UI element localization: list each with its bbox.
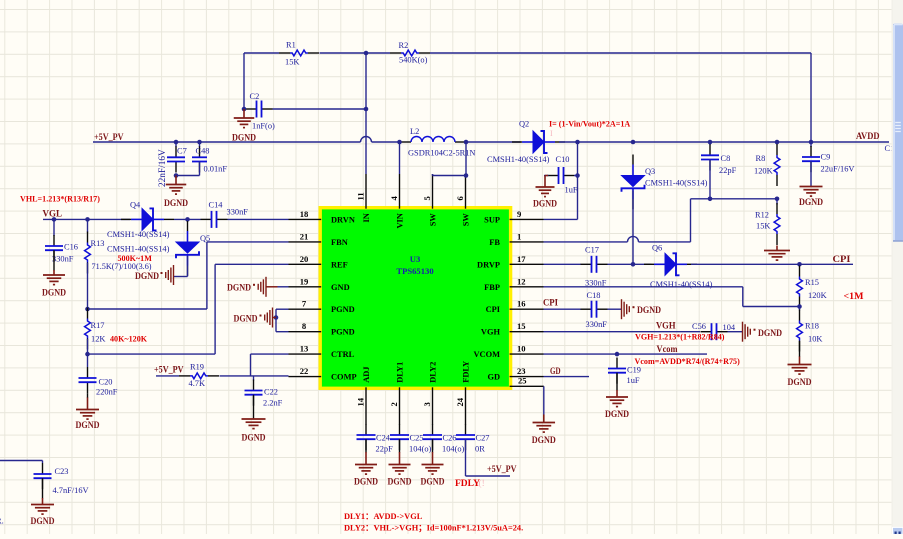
svg-text:22nF/16V: 22nF/16V bbox=[158, 149, 168, 187]
capacitor C24 bbox=[357, 424, 394, 454]
node bbox=[797, 304, 802, 309]
capacitor C17 bbox=[544, 246, 608, 288]
svg-text:FB: FB bbox=[489, 238, 500, 247]
svg-text:Q2: Q2 bbox=[519, 120, 529, 129]
svg-text:19: 19 bbox=[300, 276, 309, 286]
net CPI pin16 bbox=[543, 298, 558, 308]
diode Q3 bbox=[622, 155, 708, 210]
ground bbox=[764, 246, 790, 261]
pin 2 DLY1 bbox=[389, 362, 405, 425]
ground DGND bbox=[799, 186, 823, 207]
svg-text:ADJ: ADJ bbox=[362, 367, 371, 383]
svg-text:104: 104 bbox=[723, 323, 736, 332]
pin 1 FB bbox=[489, 231, 543, 247]
resistor R15 bbox=[797, 266, 827, 308]
svg-text:R17: R17 bbox=[91, 321, 105, 330]
label clipped bbox=[0, 517, 4, 526]
svg-text:120K: 120K bbox=[754, 167, 773, 176]
svg-text:DGND: DGND bbox=[164, 198, 188, 208]
svg-text:C20: C20 bbox=[99, 378, 113, 387]
svg-text:8: 8 bbox=[302, 321, 307, 331]
ground DGND bbox=[76, 393, 100, 430]
pin 14 ADJ bbox=[356, 367, 372, 425]
svg-text:CPI: CPI bbox=[486, 305, 500, 314]
svg-text:VGH: VGH bbox=[656, 321, 676, 331]
svg-text:AVDD: AVDD bbox=[856, 131, 880, 141]
svg-text:Q3: Q3 bbox=[645, 167, 655, 176]
svg-text:L2: L2 bbox=[410, 127, 419, 136]
svg-text:DRVN: DRVN bbox=[331, 215, 355, 224]
op-amp U3 TPS65130 body bbox=[320, 208, 510, 389]
wire bbox=[430, 53, 811, 142]
svg-text:GND: GND bbox=[331, 283, 350, 292]
ground DGND bbox=[532, 415, 556, 446]
svg-text:C25: C25 bbox=[410, 434, 424, 443]
wire bbox=[320, 52, 367, 54]
capacitor C26 bbox=[423, 424, 465, 454]
svg-text:DGND: DGND bbox=[42, 288, 66, 298]
net AVDD bbox=[856, 131, 880, 141]
svg-text:500K~1M: 500K~1M bbox=[118, 254, 153, 263]
net +5V_PV bbox=[94, 132, 124, 142]
pin 22 COMP bbox=[289, 366, 357, 382]
net CPI bbox=[833, 254, 851, 264]
svg-text:CMSH1-40(SS14): CMSH1-40(SS14) bbox=[107, 230, 170, 239]
capacitor C19 bbox=[608, 358, 641, 386]
svg-text:Vcom: Vcom bbox=[657, 344, 678, 354]
ground DGND rotated PGND bbox=[234, 308, 277, 328]
net +5V_PV bottom bbox=[487, 464, 517, 474]
svg-text:R8: R8 bbox=[756, 154, 766, 163]
svg-text:15: 15 bbox=[517, 321, 526, 331]
svg-text:VHL=1.213*(R13/R17): VHL=1.213*(R13/R17) bbox=[20, 195, 100, 204]
svg-text:40K~120K: 40K~120K bbox=[110, 335, 148, 344]
node bbox=[242, 107, 247, 112]
svg-text:DGND: DGND bbox=[788, 377, 812, 387]
svg-text:DGND: DGND bbox=[232, 133, 256, 143]
svg-text:GD: GD bbox=[487, 373, 500, 382]
ground DGND bbox=[533, 176, 557, 209]
wire FBN bbox=[85, 242, 288, 311]
wire FBP bbox=[544, 287, 800, 307]
net C1 clipped bbox=[885, 144, 895, 153]
resistor R8 bbox=[754, 144, 780, 186]
wire REF bbox=[88, 264, 289, 354]
svg-text:+5V_PV: +5V_PV bbox=[94, 132, 124, 142]
svg-text:DGND: DGND bbox=[76, 420, 100, 430]
svg-text:SW: SW bbox=[429, 213, 438, 227]
capacitor C18 bbox=[544, 291, 608, 329]
svg-text:REF: REF bbox=[331, 260, 348, 269]
pin 17 DRVP bbox=[477, 254, 543, 270]
svg-text:71.5K(7)/100(3.6): 71.5K(7)/100(3.6) bbox=[92, 262, 152, 271]
pin 16 CPI bbox=[486, 299, 544, 315]
svg-text:<1M: <1M bbox=[844, 291, 864, 301]
svg-text:DLY1：AVDD->VGL: DLY1：AVDD->VGL bbox=[344, 512, 423, 521]
pin 4 VIN bbox=[389, 174, 405, 229]
svg-text:PGND: PGND bbox=[331, 328, 355, 337]
svg-text:540K(o): 540K(o) bbox=[399, 56, 428, 65]
pin 10 VCOM bbox=[473, 344, 543, 360]
capacitor C14 bbox=[201, 201, 289, 228]
svg-text:C8: C8 bbox=[721, 154, 731, 163]
svg-text:DGND: DGND bbox=[354, 477, 378, 487]
wire bbox=[399, 439, 401, 452]
wire AVDD bbox=[559, 141, 889, 143]
svg-text:DLY2：VHL->VGH；Id=100nF*1.213V/: DLY2：VHL->VGH；Id=100nF*1.213V/5uA=24. bbox=[344, 524, 523, 534]
svg-text:Vcom=AVDD*R74/(R74+R75): Vcom=AVDD*R74/(R74+R75) bbox=[635, 357, 741, 366]
svg-text:DRVP: DRVP bbox=[477, 260, 500, 269]
svg-text:0.01nF: 0.01nF bbox=[204, 165, 228, 174]
pin 6 SW bbox=[455, 174, 471, 226]
svg-text:DLY2: DLY2 bbox=[429, 362, 438, 383]
svg-text:CMSH1-40(SS14): CMSH1-40(SS14) bbox=[107, 245, 170, 254]
svg-text:C22: C22 bbox=[264, 388, 278, 397]
pin 5 SW bbox=[422, 174, 438, 226]
wire bbox=[365, 439, 367, 452]
wire pin25 bbox=[543, 386, 545, 414]
svg-text:C24: C24 bbox=[376, 434, 391, 443]
svg-text:C14: C14 bbox=[209, 201, 224, 210]
svg-text:DGND: DGND bbox=[799, 197, 823, 207]
svg-text:10K: 10K bbox=[808, 335, 822, 344]
svg-text:104(o): 104(o) bbox=[442, 445, 465, 454]
wire bbox=[42, 478, 44, 498]
svg-text:R15: R15 bbox=[805, 278, 819, 287]
svg-text:4: 4 bbox=[389, 196, 399, 201]
wire IN bbox=[365, 53, 367, 174]
svg-text:I= (1-Vin/Vout)*2A=1A: I= (1-Vin/Vout)*2A=1A bbox=[549, 120, 630, 129]
svg-text:CPI: CPI bbox=[543, 298, 558, 308]
ground DGND bbox=[242, 418, 266, 443]
svg-text:VGH=1.213*(1+R82/R84): VGH=1.213*(1+R82/R84) bbox=[635, 333, 725, 342]
ground DGND bbox=[42, 270, 66, 298]
svg-text:4.7nF/16V: 4.7nF/16V bbox=[53, 486, 89, 495]
svg-text:DGND: DGND bbox=[758, 328, 782, 338]
svg-text:0R: 0R bbox=[475, 445, 485, 454]
svg-text:+5V_PV: +5V_PV bbox=[154, 365, 184, 375]
label Q5 part bbox=[107, 245, 170, 254]
svg-text:I: I bbox=[550, 129, 553, 138]
pin 11 IN bbox=[356, 174, 372, 223]
net GD bbox=[550, 366, 561, 376]
svg-text:22: 22 bbox=[300, 366, 309, 376]
svg-text:DGND: DGND bbox=[605, 409, 629, 419]
capacitor C2 bbox=[246, 92, 276, 131]
svg-text:SUP: SUP bbox=[484, 215, 500, 224]
svg-text:DGND: DGND bbox=[388, 477, 412, 487]
wire bbox=[253, 395, 255, 418]
svg-text:CTRL: CTRL bbox=[331, 350, 355, 359]
pin 19 GND bbox=[289, 276, 350, 292]
svg-text:C7: C7 bbox=[177, 147, 187, 156]
wire FB bbox=[544, 236, 691, 241]
svg-text:DGND: DGND bbox=[421, 477, 445, 487]
svg-text:+5V_PV: +5V_PV bbox=[487, 464, 517, 474]
wire CPI bbox=[691, 262, 853, 267]
wire bbox=[728, 331, 743, 333]
svg-text:Q6: Q6 bbox=[652, 244, 662, 253]
svg-text:C26: C26 bbox=[443, 434, 457, 443]
wire FB node bbox=[691, 197, 780, 242]
annotation Vcom bbox=[635, 357, 741, 366]
svg-text:DGND: DGND bbox=[234, 314, 258, 324]
wire bbox=[810, 161, 812, 186]
svg-text:VGL: VGL bbox=[43, 209, 63, 219]
svg-text:2.2nF: 2.2nF bbox=[263, 399, 283, 408]
capacitor C27 bbox=[456, 424, 489, 454]
svg-text:C27: C27 bbox=[476, 434, 490, 443]
svg-text:15K: 15K bbox=[756, 222, 770, 231]
pin 21 FBN bbox=[289, 231, 348, 247]
resistor R2 bbox=[366, 41, 430, 65]
svg-text:CMSH1-40(SS14): CMSH1-40(SS14) bbox=[487, 155, 550, 164]
pin 25 bbox=[510, 376, 544, 387]
ground DGND bbox=[232, 109, 256, 143]
node junctions bbox=[174, 140, 814, 145]
svg-text:21: 21 bbox=[300, 231, 309, 241]
pin 12 FBP bbox=[484, 276, 543, 292]
wire bbox=[87, 339, 89, 354]
capacitor C22 bbox=[245, 376, 283, 408]
node R1-R2 bbox=[364, 51, 369, 56]
ground DGND bbox=[31, 498, 55, 526]
wire FDLY to +5V_PV bbox=[466, 439, 511, 476]
svg-text:16: 16 bbox=[517, 299, 526, 309]
ground DGND bbox=[605, 390, 629, 419]
net FDLY struck bbox=[455, 478, 485, 489]
svg-text:11: 11 bbox=[356, 192, 366, 200]
wire SUP bbox=[544, 142, 580, 219]
capacitor C48 bbox=[176, 142, 227, 176]
annotation DLY2 bbox=[344, 524, 523, 534]
svg-text:C16: C16 bbox=[64, 243, 78, 252]
capacitor C8 bbox=[701, 142, 737, 175]
net Vcom bbox=[657, 344, 678, 354]
annotation current bbox=[549, 120, 630, 139]
diode Q6 bbox=[644, 244, 713, 290]
ground DGND bbox=[354, 452, 378, 487]
capacitor C7 bbox=[158, 142, 187, 187]
svg-text:3: 3 bbox=[422, 402, 432, 406]
pin 3 DLY2 bbox=[422, 362, 438, 425]
svg-text:14: 14 bbox=[356, 397, 366, 406]
wire bbox=[709, 160, 711, 199]
svg-text:VIN: VIN bbox=[396, 213, 405, 228]
svg-text:SW: SW bbox=[462, 213, 471, 227]
wire bbox=[608, 308, 622, 310]
capacitor C23 bbox=[34, 463, 89, 495]
svg-text:1uF: 1uF bbox=[627, 376, 640, 385]
svg-text:120K: 120K bbox=[808, 291, 827, 300]
wire bbox=[174, 218, 201, 220]
svg-text:C2: C2 bbox=[250, 92, 260, 101]
annotation R17 range bbox=[110, 335, 148, 344]
svg-text:C48: C48 bbox=[196, 147, 210, 156]
svg-text:R1: R1 bbox=[286, 41, 296, 50]
svg-text:DGND: DGND bbox=[533, 199, 557, 209]
wire CTRL bbox=[251, 354, 289, 376]
svg-text:22pF: 22pF bbox=[376, 445, 394, 454]
resistor R13 bbox=[85, 219, 152, 273]
svg-text:FDLY: FDLY bbox=[462, 361, 471, 383]
wire bbox=[244, 53, 279, 109]
annotation bbox=[844, 291, 864, 301]
svg-text:R13: R13 bbox=[91, 239, 105, 248]
diode Q2 bbox=[487, 120, 565, 165]
svg-text:17: 17 bbox=[517, 254, 526, 264]
ground DGND rotated C56 bbox=[743, 322, 783, 342]
svg-text:R2: R2 bbox=[399, 41, 409, 50]
pin 13 CTRL bbox=[289, 344, 355, 360]
annotation R13 range bbox=[118, 254, 153, 263]
svg-text:R12: R12 bbox=[755, 211, 769, 220]
capacitor C10 bbox=[544, 155, 578, 195]
svg-text:R19: R19 bbox=[190, 363, 204, 372]
ground DGND bbox=[788, 357, 812, 388]
svg-text:C17: C17 bbox=[585, 246, 599, 255]
svg-text:DGND: DGND bbox=[227, 283, 251, 293]
svg-text:22pF: 22pF bbox=[719, 166, 737, 175]
svg-text:24: 24 bbox=[455, 397, 465, 406]
diode Q4 bbox=[107, 201, 174, 240]
scrollbar bbox=[892, 0, 903, 535]
svg-text:1: 1 bbox=[517, 231, 521, 241]
pin 18 DRVN bbox=[289, 209, 355, 225]
svg-text:R.: R. bbox=[0, 517, 4, 526]
wire bbox=[432, 439, 434, 452]
svg-text:PGND: PGND bbox=[331, 305, 355, 314]
net +5V_PV at R19 bbox=[154, 365, 184, 375]
svg-text:18: 18 bbox=[300, 209, 309, 219]
wire bbox=[273, 108, 367, 110]
node bbox=[185, 217, 190, 222]
node C2 bbox=[364, 107, 369, 112]
svg-text:IN: IN bbox=[362, 213, 371, 222]
svg-text:13: 13 bbox=[300, 344, 309, 354]
svg-text:TPS65130: TPS65130 bbox=[396, 266, 433, 276]
svg-text:DGND: DGND bbox=[31, 516, 55, 526]
svg-text:C56: C56 bbox=[692, 322, 706, 331]
pin 20 REF bbox=[289, 254, 348, 270]
resistor R12 bbox=[755, 199, 780, 245]
node bbox=[174, 173, 179, 178]
svg-text:Q4: Q4 bbox=[130, 201, 141, 210]
svg-text:DLY1: DLY1 bbox=[396, 362, 405, 383]
wire DRVP bbox=[608, 262, 652, 267]
svg-text:C19: C19 bbox=[627, 366, 641, 375]
resistor R1 bbox=[279, 41, 319, 67]
svg-text:FBN: FBN bbox=[331, 238, 348, 247]
capacitor C16 bbox=[45, 219, 78, 263]
pin 24 FDLY bbox=[455, 361, 471, 425]
capacitor C9 bbox=[802, 142, 854, 174]
svg-text:C18: C18 bbox=[587, 291, 601, 300]
svg-text:4.7K: 4.7K bbox=[189, 379, 206, 388]
svg-text:12K: 12K bbox=[91, 335, 105, 344]
svg-text:(!: (! bbox=[479, 478, 485, 489]
svg-text:CMSH1-40(SS14): CMSH1-40(SS14) bbox=[650, 280, 713, 289]
wire PGND bbox=[274, 309, 289, 332]
ground DGND bbox=[421, 452, 445, 487]
pin 15 VGH bbox=[481, 321, 544, 337]
wire SW jog bbox=[433, 142, 469, 178]
wire +5V_PV bbox=[93, 137, 400, 143]
diode Q5 bbox=[174, 221, 210, 277]
wire GD bbox=[544, 376, 590, 378]
svg-text:VGH: VGH bbox=[481, 328, 501, 337]
pin 23 GD bbox=[487, 366, 543, 382]
wire VCOM bbox=[544, 352, 708, 357]
svg-text:FDLY: FDLY bbox=[455, 479, 480, 489]
svg-text:5: 5 bbox=[422, 196, 432, 200]
ground DGND rotated bbox=[135, 265, 174, 285]
pin 8 PGND bbox=[289, 321, 355, 337]
net VGH bbox=[656, 321, 676, 331]
pin 7 PGND bbox=[289, 299, 355, 315]
wire Q3 down bbox=[632, 191, 634, 265]
wire bbox=[87, 263, 89, 309]
wire VIN bbox=[399, 142, 401, 174]
wire bbox=[53, 250, 55, 270]
svg-text:12: 12 bbox=[517, 276, 526, 286]
svg-text:1nF(o): 1nF(o) bbox=[252, 122, 275, 131]
annotation DLY1 bbox=[344, 512, 423, 521]
svg-text:2: 2 bbox=[389, 402, 399, 406]
svg-text:COMP: COMP bbox=[331, 373, 357, 382]
svg-text:9: 9 bbox=[517, 209, 521, 219]
svg-text:VCOM: VCOM bbox=[473, 350, 500, 359]
svg-text:R18: R18 bbox=[805, 322, 819, 331]
svg-text:330nF: 330nF bbox=[52, 255, 74, 264]
capacitor C20 bbox=[79, 354, 118, 396]
wire bbox=[616, 373, 618, 391]
ground DGND bbox=[388, 452, 412, 487]
ground DGND rotated GND pin bbox=[227, 277, 289, 297]
inductor L2 bbox=[400, 127, 475, 158]
svg-text:6: 6 bbox=[455, 196, 465, 201]
svg-text:22uF/16V: 22uF/16V bbox=[821, 165, 855, 174]
svg-text:C23: C23 bbox=[55, 467, 69, 476]
svg-text:CPI: CPI bbox=[833, 254, 851, 264]
svg-text:DGND: DGND bbox=[135, 271, 159, 281]
svg-text:330nF: 330nF bbox=[586, 320, 608, 329]
svg-text:330nF: 330nF bbox=[227, 208, 249, 217]
svg-text:15K: 15K bbox=[285, 58, 299, 67]
svg-text:FBP: FBP bbox=[484, 283, 500, 292]
svg-text:104(o): 104(o) bbox=[409, 445, 432, 454]
svg-text:DGND: DGND bbox=[242, 433, 266, 443]
svg-text:7: 7 bbox=[302, 299, 307, 309]
svg-text:C10: C10 bbox=[556, 155, 570, 164]
wire bbox=[799, 341, 801, 357]
wire bbox=[466, 141, 521, 143]
svg-text:GD: GD bbox=[550, 366, 561, 376]
annotation VGH bbox=[635, 333, 725, 342]
svg-text:10: 10 bbox=[517, 344, 526, 354]
svg-text:1uF: 1uF bbox=[565, 186, 578, 195]
pin 9 SUP bbox=[484, 209, 543, 225]
annotation VHL bbox=[20, 195, 100, 204]
net VGL bbox=[43, 209, 63, 219]
wire VGL bbox=[43, 217, 130, 222]
capacitor C56 bbox=[544, 322, 736, 340]
svg-text:DGND: DGND bbox=[532, 435, 556, 445]
svg-text:CMSH1-40(SS14): CMSH1-40(SS14) bbox=[645, 179, 708, 188]
capacitor C25 bbox=[390, 424, 432, 454]
wire bbox=[0, 461, 43, 464]
resistor R19 bbox=[156, 363, 289, 389]
